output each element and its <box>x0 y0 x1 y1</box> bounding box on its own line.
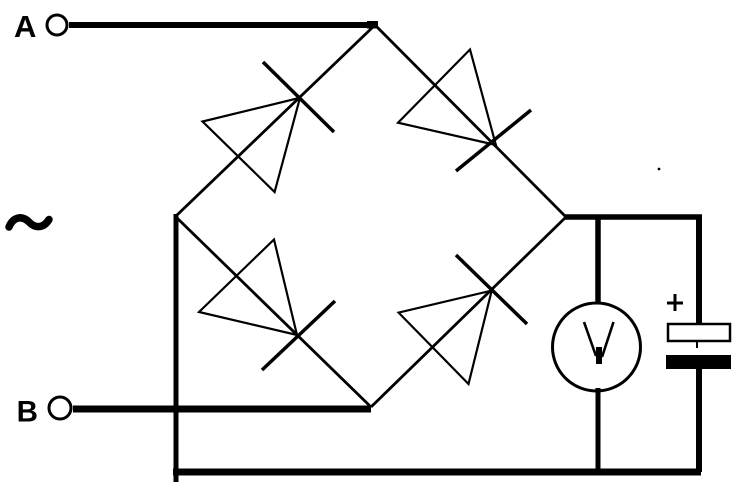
voltmeter V1 <box>553 303 641 391</box>
wire bridge edge bottom-left <box>176 217 371 407</box>
svg-text:A: A <box>14 9 36 44</box>
wire battery bottom lead <box>696 368 702 472</box>
svg-text:B: B <box>17 396 38 429</box>
terminal B <box>49 397 71 419</box>
diode D3 lower-left <box>199 240 335 371</box>
wire voltmeter bottom lead <box>596 388 601 472</box>
wire left vertical (negative rail) <box>174 214 179 482</box>
wire top-right horizontal (positive rail) <box>564 214 702 220</box>
wire bottom horizontal <box>173 469 701 476</box>
speck <box>658 168 661 171</box>
AC source tilde <box>9 218 49 227</box>
wire bridge edge bottom-right <box>371 217 566 407</box>
wire battery top lead <box>696 217 702 325</box>
diode D4 lower-right <box>399 255 527 384</box>
wire B horizontal <box>73 406 371 413</box>
wire A top horizontal <box>69 22 375 28</box>
wire bridge edge top-right <box>375 25 566 217</box>
wire bridge edge top-left <box>176 25 375 216</box>
diode D2 upper-right <box>398 50 531 172</box>
diode D1 upper-left <box>203 62 335 192</box>
terminal A <box>47 15 67 35</box>
battery plus sign <box>667 294 683 311</box>
wire voltmeter top lead <box>595 217 601 307</box>
battery center tick <box>696 341 698 348</box>
battery positive plate <box>668 324 730 341</box>
battery negative plate <box>666 355 731 369</box>
